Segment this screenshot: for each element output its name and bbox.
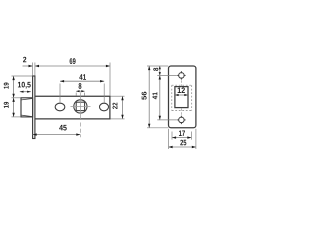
dim 25 extension lines <box>169 129 196 149</box>
dim 41 arrows <box>60 80 104 82</box>
plate extension lines (8/41/56) <box>147 66 177 128</box>
dim 41 line <box>60 80 104 82</box>
latch case body <box>35 96 110 119</box>
dim 19 upper line+arrows <box>13 76 15 98</box>
hidden lip dashed box <box>172 85 192 110</box>
dim 8 extension lines (latch) <box>76 93 84 96</box>
dim 41 text (plate) <box>152 92 157 99</box>
dim 8 text (latch) <box>79 83 82 89</box>
top screw hole <box>177 71 185 79</box>
dim 19 lower line+arrows <box>13 98 15 117</box>
dim 22 extension lines (latch) <box>111 96 125 119</box>
dim 2 text <box>23 57 26 63</box>
dim 22 line+arrows (latch) <box>122 96 124 119</box>
dim 41 extension lines <box>60 84 104 103</box>
right round hole <box>100 103 109 111</box>
dim 69 right arrow <box>106 65 110 67</box>
dim 25 line+arrows <box>169 146 196 148</box>
dim 2/69 extension lines <box>33 63 110 96</box>
spindle centerline vertical <box>79 92 81 120</box>
dim 45 line+arrows <box>33 134 81 136</box>
dim 41 text <box>79 74 86 80</box>
dim 56 text <box>142 92 147 100</box>
dim 25 text <box>180 140 186 146</box>
dim 41 line+arrows (plate) <box>159 75 161 120</box>
latch cutout rectangle <box>175 87 188 108</box>
dim 10,5 line+arrows <box>20 91 31 93</box>
dim 12 text <box>178 87 185 93</box>
dim 2 arrows <box>29 65 40 67</box>
bottom screw hole <box>177 116 185 124</box>
dim 56 line+arrows <box>148 66 150 128</box>
hole centerline dashes <box>180 80 182 115</box>
dim 69 text <box>70 58 76 64</box>
dim 17 extension lines <box>172 132 191 140</box>
spindle follower circle <box>74 100 87 113</box>
left round hole <box>55 103 65 111</box>
dim 2/69 line <box>23 65 110 67</box>
dim 22 text (latch) <box>113 103 118 109</box>
dim 45 text <box>59 125 66 131</box>
faceplate <box>33 76 35 139</box>
dim 17 line+arrows <box>172 137 191 139</box>
dim 8 line+arrows (latch) <box>76 90 84 92</box>
dim 10,5 text <box>18 82 31 89</box>
dim 19 extension lines <box>12 76 33 117</box>
spindle square hole <box>76 102 84 110</box>
dim 12 line+arrows <box>175 94 188 96</box>
dim 8 text (plate) <box>153 68 158 71</box>
dim 19 lower text <box>4 102 9 108</box>
spindle centerline horizontal <box>71 105 91 107</box>
dim 8 line+arrows (plate) <box>159 66 161 75</box>
strike plate outline <box>169 66 196 128</box>
dim 17 text <box>179 131 185 137</box>
latch bolt <box>21 98 33 117</box>
dim 19 upper text <box>4 83 9 89</box>
